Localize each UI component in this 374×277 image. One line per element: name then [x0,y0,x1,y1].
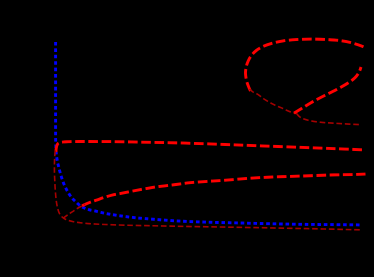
curve: equilibrium branch (blue dotted) [56,42,360,225]
curve C: limit-cycle min envelope (thin dark red dashed) [54,151,360,230]
curve B: rising limit-cycle branch (thick red dashed) [82,174,366,206]
curve E: isola bottom arc (thin dark red dashed) [250,89,297,114]
curve F: thick red dashed branch rising to upper-right fold [294,67,361,113]
curve G: thin branch continuing right from fold point [297,114,361,125]
curve D: isola top arc (thick red dashed) [245,39,363,91]
curve B thin start near fork [63,204,85,218]
curve A: upper limit-cycle max branch (thick red dashed hook) [56,142,365,153]
